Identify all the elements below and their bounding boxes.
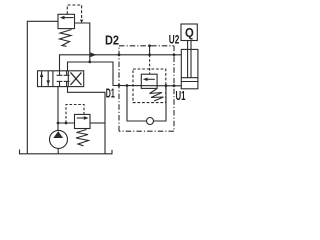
svg-text:U2: U2: [169, 32, 180, 46]
node: drain joins line B: [88, 61, 91, 64]
counterbalance valve body: [141, 74, 157, 88]
node: pilot at enclosure top: [148, 44, 151, 47]
relief valve RV1 spring: [60, 30, 72, 47]
wire: RV2 outlet to tank return: [90, 122, 105, 124]
node: RV2 pilot tap: [65, 122, 68, 125]
wire: valve port T return to tank: [68, 87, 106, 154]
counterbalance valve dashed box: [133, 69, 166, 103]
counterbalance valve internal arrow: [143, 78, 155, 82]
wire: pump pressure line to valve port P: [57, 87, 59, 131]
svg-text:U1: U1: [176, 89, 186, 103]
check valve circle: [147, 118, 154, 125]
relief valve RV1 pilot line (dashed): [67, 5, 81, 22]
node: check bypass right junction: [165, 84, 168, 87]
relief valve RV2 pilot line (dashed): [66, 105, 84, 124]
wire: relief valve left port to tank: [27, 21, 58, 154]
hydraulic cylinder body: [181, 49, 198, 88]
directional valve centre position closed ports: [57, 71, 70, 87]
node: port U1: [173, 84, 176, 87]
relief valve RV1 internal arrow: [60, 16, 74, 20]
node: port D2: [118, 53, 121, 56]
relief valve RV1 body: [58, 14, 75, 28]
load box Q: [181, 24, 197, 41]
flow arrow on line A: [90, 52, 96, 57]
wire: pump suction stub to tank line: [57, 148, 59, 154]
directional valve body (3 positions): [38, 71, 84, 87]
node: pilot tap on line A: [148, 53, 151, 56]
check valve bypass wire: [127, 86, 147, 122]
node: check bypass left junction: [126, 84, 129, 87]
directional valve right position crossed arrows: [71, 72, 82, 85]
relief valve RV1 pilot arrowhead: [80, 20, 83, 23]
directional valve left position arrows: [40, 71, 50, 86]
cylinder piston: [181, 77, 198, 79]
node: RV2 branch on pump line: [57, 122, 60, 125]
wire: main line B (valve port B to counterbalance valve, D1 line): [68, 62, 182, 86]
svg-text:Q: Q: [185, 26, 194, 40]
cylinder rod: [187, 41, 189, 78]
counterbalance valve spring: [150, 89, 164, 101]
tank line: [20, 150, 113, 154]
node: port D1: [118, 84, 121, 87]
wire: RV1 right port drain down to line B: [75, 23, 90, 62]
pump: [50, 130, 68, 148]
wire: pump line to RV2 inlet: [58, 122, 75, 124]
enclosure of flangeable assembly (dash-dot): [119, 46, 174, 131]
svg-text:D1: D1: [106, 86, 115, 100]
relief valve RV2 internal arrow: [77, 116, 89, 120]
relief valve RV2 spring: [76, 130, 89, 146]
wire: main line A (valve port A to cylinder rod side, D2-U2 line): [60, 55, 182, 71]
node: port U2: [173, 53, 176, 56]
svg-text:D2: D2: [105, 34, 119, 48]
relief valve RV2 body: [75, 114, 91, 128]
counterbalance valve pilot line: [149, 46, 151, 55]
